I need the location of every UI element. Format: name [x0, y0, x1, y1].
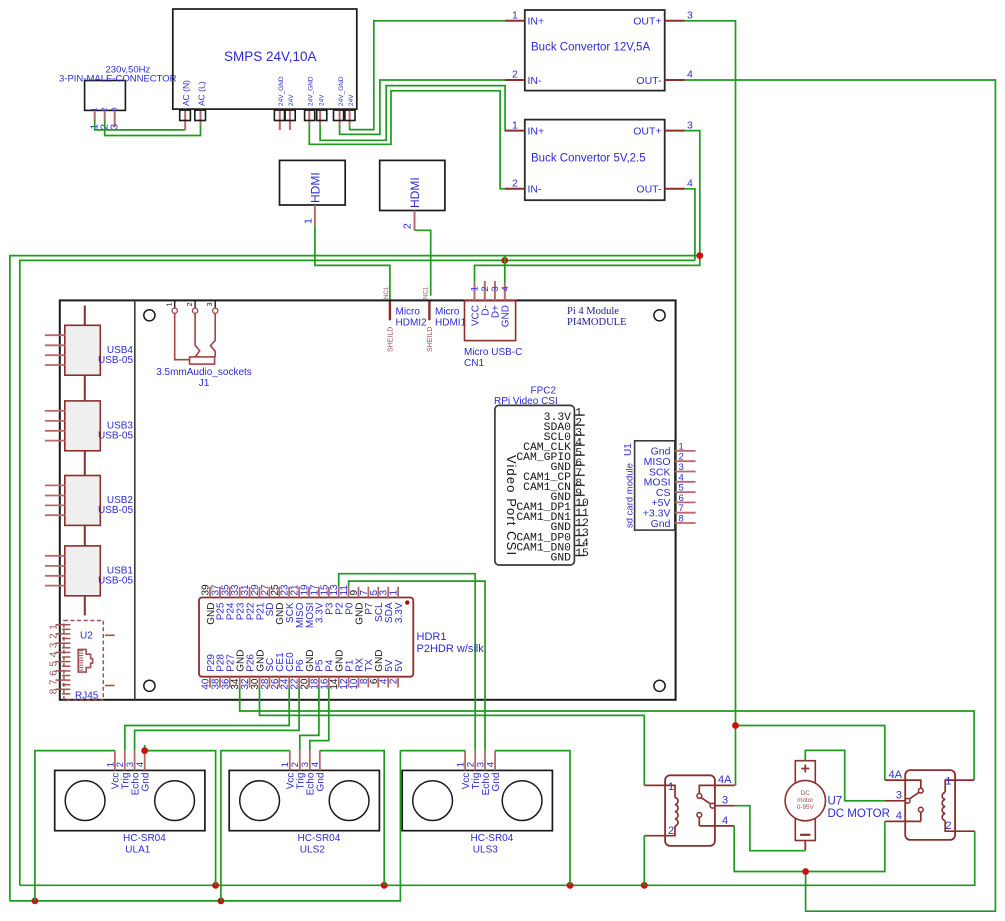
- sd card module pins 1-8: [643, 441, 696, 529]
- USB chain stub 3-2: [84, 451, 86, 476]
- pin1 marker dot: [405, 600, 409, 604]
- svg-text:4: 4: [722, 815, 728, 827]
- wire buck1 OUT- right edge loop: [685, 80, 996, 911]
- connector USB1 USB-05: [65, 546, 101, 596]
- wire pin2 to AC(L): [105, 121, 201, 136]
- HDMI connector 2 body: [380, 160, 445, 210]
- svg-text:Buck Convertor 5V,2.5: Buck Convertor 5V,2.5: [531, 153, 646, 165]
- svg-text:1: 1: [90, 107, 99, 111]
- svg-text:HDMI2: HDMI2: [396, 318, 428, 329]
- junction ULA1 Gnd: [141, 747, 148, 754]
- svg-text:2: 2: [668, 825, 674, 837]
- wire header pin22 to ULA1 Echo: [135, 688, 300, 751]
- svg-text:3: 3: [687, 10, 693, 22]
- pin 4 OUT-: [665, 79, 685, 81]
- pin 1 IN+: [505, 130, 525, 132]
- svg-text:SHEILD: SHEILD: [388, 327, 395, 352]
- connector FPC2 RPi Video CSI body: [495, 405, 575, 565]
- wire header pin13 P3 to ULS3 Trig: [339, 574, 476, 751]
- relay K2 lower throw: [918, 807, 923, 812]
- wire ULA1 Gnd stub: [144, 745, 146, 751]
- Pi 4 Module body: [60, 300, 676, 699]
- sensor ULS3 HC-SR04 body: [402, 770, 552, 830]
- USB chain stub 4-3: [84, 375, 86, 401]
- pin AC (L): [200, 109, 202, 125]
- svg-text:Gnd: Gnd: [651, 518, 671, 530]
- pin 4 OUT-: [665, 188, 685, 190]
- wire GND bus row + left drop to sensor Gnd rail: [20, 260, 695, 885]
- svg-text:1: 1: [389, 590, 400, 596]
- svg-text:4A: 4A: [718, 774, 732, 786]
- junction 5V row / buck2 OUT+: [696, 252, 703, 259]
- wire header pin34 to relay K2 coil 1: [240, 688, 974, 781]
- svg-text:3-PIN-MALE-CONNECTOR: 3-PIN-MALE-CONNECTOR: [59, 74, 177, 85]
- svg-text:USB-05: USB-05: [98, 576, 133, 587]
- svg-text:2: 2: [100, 107, 109, 111]
- svg-text:2: 2: [512, 69, 518, 81]
- junction Gnd rail ULS3: [567, 882, 574, 889]
- svg-text:HDR1: HDR1: [417, 631, 447, 643]
- wire 5V bus row + left drop to sensor Vcc rail: [10, 256, 700, 901]
- svg-text:SMPS 24V,10A: SMPS 24V,10A: [224, 49, 317, 64]
- svg-text:NC1: NC1: [384, 286, 390, 299]
- svg-text:1: 1: [165, 302, 174, 306]
- wire header pin11 P2 to ULS3 Echo: [349, 581, 485, 751]
- motor U7 DC MOTOR body: [795, 761, 815, 841]
- connector USB3 USB-05: [65, 401, 101, 451]
- svg-text:24V: 24V: [288, 94, 295, 106]
- junction Gnd rail relay L coil: [641, 882, 648, 889]
- module U1 sd card module body: [635, 441, 675, 530]
- wire 24V_GND b to buck2 IN-: [309, 91, 509, 189]
- wire motor - to relay K1 pin 3: [735, 806, 805, 851]
- svg-text:P2HDR w/silk: P2HDR w/silk: [417, 643, 485, 655]
- svg-text:Micro: Micro: [396, 307, 421, 318]
- relay K2 coil: [942, 792, 945, 820]
- connector CN1 Micro USB-C body: [465, 300, 516, 340]
- pin 2 IN-: [505, 188, 525, 190]
- svg-text:Buck Convertor 12V,5A: Buck Convertor 12V,5A: [531, 42, 650, 54]
- wire ULS2 Vcc rail: [221, 751, 290, 901]
- pin 1 VCC: [474, 283, 476, 301]
- pin 24V c: [349, 109, 351, 125]
- USB chain stub bottom: [84, 596, 86, 616]
- pin 1 of HDMI1: [314, 205, 316, 225]
- svg-text:RPi Video CSI: RPi Video CSI: [494, 396, 558, 407]
- svg-text:4: 4: [486, 762, 497, 767]
- junction 12V branch: [732, 722, 739, 729]
- svg-text:IN+: IN+: [528, 16, 545, 28]
- pin 2 IN-: [505, 79, 525, 81]
- svg-text:2: 2: [185, 302, 194, 306]
- pin 2 D-: [484, 281, 486, 301]
- svg-text:sd card module: sd card module: [625, 463, 636, 528]
- svg-text:IN-: IN-: [528, 184, 543, 196]
- USB chain stub top: [84, 306, 86, 326]
- wire motor + to relay K2 pin 3: [805, 750, 884, 800]
- svg-text:0-95V: 0-95V: [797, 804, 815, 811]
- stub right of RJ45 (1): [105, 634, 115, 636]
- svg-text:CN1: CN1: [464, 358, 484, 369]
- relay K1 coil: [675, 798, 678, 826]
- CSI pins 1-15: [574, 415, 584, 555]
- svg-text:3.5mmAudio_sockets: 3.5mmAudio_sockets: [156, 367, 252, 378]
- svg-text:2: 2: [389, 678, 400, 684]
- svg-text:IN+: IN+: [528, 125, 545, 137]
- svg-text:DC MOTOR: DC MOTOR: [828, 808, 890, 820]
- wire pin1 to AC(N): [95, 121, 186, 130]
- sensor ULS2 HC-SR04 body: [229, 770, 379, 830]
- wire sensor Vcc rail (bottom): [10, 750, 401, 901]
- relay K1 coil pin 2: [644, 826, 675, 836]
- svg-text:3: 3: [205, 302, 214, 306]
- svg-text:OUT-: OUT-: [636, 75, 662, 87]
- svg-text:3: 3: [896, 790, 902, 802]
- pin 24V b: [319, 109, 321, 125]
- svg-text:8: 8: [679, 514, 684, 525]
- svg-text:4: 4: [135, 762, 146, 767]
- sensor ULA1 HC-SR04 body: [55, 770, 205, 830]
- svg-text:4: 4: [896, 810, 902, 822]
- svg-text:RJ45: RJ45: [75, 691, 99, 702]
- wire sensor Gnd rail (bottom): [20, 831, 975, 885]
- RJ45 pins 1-8: [56, 625, 71, 694]
- SMPS 24V,10A body: [173, 9, 357, 109]
- svg-text:AC (L): AC (L): [196, 81, 206, 106]
- relay K1 body: [665, 775, 715, 846]
- connector J? 3-PIN-MALE-CONNECTOR body: [85, 81, 126, 111]
- mounting hole bottom-left: [144, 680, 155, 691]
- svg-text:4: 4: [310, 762, 321, 767]
- svg-text:U1: U1: [623, 443, 634, 456]
- pin 3 OUT+: [665, 130, 685, 132]
- connector USB4 USB-05: [65, 325, 101, 375]
- relay K2 body: [905, 770, 955, 840]
- svg-text:5V: 5V: [394, 659, 405, 672]
- svg-text:AC (N): AC (N): [181, 80, 191, 106]
- pin 1 of connector: [94, 110, 96, 121]
- connector J1 3.5mm audio sockets: [175, 300, 216, 308]
- svg-text:HC-SR04: HC-SR04: [471, 833, 514, 844]
- wire relay K1 pin 2 to Gnd rail: [643, 836, 645, 886]
- svg-text:ULS3: ULS3: [473, 845, 498, 856]
- relay K1 coil pin 1: [644, 785, 675, 797]
- svg-text:24V_GND: 24V_GND: [338, 76, 345, 106]
- svg-text:1: 1: [303, 218, 315, 224]
- junction GND row / USB-C GND: [501, 257, 508, 264]
- pin 2 of HDMI2: [414, 211, 416, 231]
- Pi module inner divider: [134, 300, 136, 699]
- svg-text:Gnd: Gnd: [141, 773, 152, 792]
- svg-text:GND: GND: [501, 305, 512, 327]
- stub right of RJ45 (2): [105, 685, 115, 687]
- relay K2 pin 3: [884, 800, 905, 802]
- wire header pin24 to ULA1 Trig: [125, 688, 289, 751]
- junction Gnd rail ULS2: [381, 882, 388, 889]
- svg-text:Gnd: Gnd: [316, 773, 327, 792]
- pin AC (N): [184, 109, 186, 130]
- relay K1 armature: [701, 798, 711, 805]
- junction Vcc rail ULS2: [218, 898, 225, 905]
- relay K2 armature: [909, 792, 919, 799]
- CSI pin labels: [516, 408, 589, 565]
- svg-text:7: 7: [49, 679, 60, 685]
- svg-text:GND: GND: [550, 552, 571, 564]
- svg-text:J1: J1: [199, 378, 210, 389]
- svg-text:1: 1: [668, 781, 674, 793]
- svg-text:HC-SR04: HC-SR04: [123, 833, 166, 844]
- junction Gnd rail ULA1: [212, 882, 219, 889]
- svg-text:1: 1: [49, 624, 60, 630]
- svg-text:3: 3: [110, 124, 121, 130]
- svg-text:4: 4: [49, 651, 60, 657]
- motor minus stub: [804, 841, 806, 851]
- svg-text:Micro: Micro: [435, 307, 460, 318]
- wire HDMI1 to Micro HDMI2: [315, 225, 390, 299]
- wire relay K1 pin 4 to relay K2 pin 4 rail: [734, 821, 885, 871]
- svg-text:PI4MODULE: PI4MODULE: [567, 317, 627, 328]
- relay K1 pin 3: [715, 805, 735, 807]
- svg-text:24V_GND: 24V_GND: [308, 76, 315, 106]
- mounting hole bottom-right: [654, 680, 665, 691]
- svg-text:3: 3: [722, 795, 728, 807]
- svg-text:3: 3: [110, 107, 119, 111]
- pin 24V_GND b: [308, 109, 310, 125]
- pin Micro HDMI1 (NC1/SHEILD): [428, 300, 430, 320]
- svg-text:DC: DC: [801, 790, 811, 797]
- svg-text:SHEILD: SHEILD: [427, 327, 434, 352]
- svg-text:ULS2: ULS2: [300, 845, 325, 856]
- relay K2 coil pin 1: [945, 780, 974, 792]
- junction Vcc rail ULA1: [32, 898, 39, 905]
- pin Micro HDMI2 (NC1/SHEILD): [389, 300, 391, 320]
- buck converter U? 5V,2.5 body: [525, 120, 665, 201]
- svg-text:2: 2: [49, 633, 60, 639]
- svg-text:OUT+: OUT+: [633, 125, 661, 137]
- svg-text:4: 4: [687, 69, 693, 81]
- wire header pin18 to ULS2 Trig: [300, 688, 319, 751]
- mounting hole top-left: [144, 310, 155, 321]
- svg-text:2: 2: [945, 820, 951, 832]
- pin 24V a (n/c): [289, 109, 291, 130]
- pin 1 IN+: [505, 20, 525, 22]
- wire buck2 OUT- down to GND row: [685, 189, 695, 261]
- wire USB-C GND to bus: [504, 255, 506, 283]
- svg-text:24V: 24V: [318, 94, 325, 106]
- svg-text:U7: U7: [828, 796, 843, 808]
- header HDR1 P2HDR w/silk body: [199, 598, 413, 677]
- svg-text:HC-SR04: HC-SR04: [298, 833, 341, 844]
- svg-text:3: 3: [687, 119, 693, 131]
- pin 4 GND: [504, 283, 506, 301]
- svg-text:ULA1: ULA1: [125, 845, 150, 856]
- USB chain stub 2-1: [84, 525, 86, 546]
- ULS2 pin stubs: [290, 751, 320, 771]
- svg-text:OUT-: OUT-: [636, 184, 662, 196]
- svg-text:2: 2: [512, 177, 518, 189]
- svg-text:USB-05: USB-05: [98, 431, 133, 442]
- svg-text:Gnd: Gnd: [491, 773, 502, 792]
- wire HDMI2 to Micro HDMI1: [415, 230, 431, 295]
- wire header pin30 to relay K1 coil 1: [260, 688, 645, 786]
- RJ45 jack icon: [78, 649, 92, 672]
- svg-text:IN-: IN-: [528, 75, 543, 87]
- wire relay K2 pin 4A to 12V drop: [736, 726, 885, 781]
- wire buck1 OUT+ 12V down to relays: [685, 21, 736, 786]
- svg-text:HDMI: HDMI: [408, 177, 422, 208]
- svg-text:2: 2: [402, 223, 414, 229]
- svg-text:Micro USB-C: Micro USB-C: [464, 347, 522, 358]
- wire ULA1 Vcc rail: [35, 751, 115, 901]
- svg-text:4: 4: [500, 286, 511, 291]
- module U2 RJ45 dashed body: [64, 621, 103, 701]
- wire ULS3 Gnd rail: [495, 751, 570, 886]
- wire header pin16 to ULS2 Echo: [310, 688, 329, 751]
- svg-text:motor: motor: [797, 797, 813, 804]
- svg-text:USB-05: USB-05: [98, 355, 133, 366]
- header pin stubs: [210, 587, 398, 688]
- svg-text:HDMI1: HDMI1: [435, 318, 467, 329]
- pin 3 D+: [494, 281, 496, 301]
- junction relay4 rail / buck1 OUT-: [802, 868, 809, 875]
- svg-text:U2: U2: [80, 631, 93, 642]
- svg-text:Pi 4 Module: Pi 4 Module: [567, 306, 619, 317]
- wire 24V_GND c to buck1 IN-: [340, 80, 505, 134]
- svg-text:3.3V: 3.3V: [394, 602, 405, 623]
- ULA1 pin stubs: [115, 751, 145, 771]
- svg-text:3: 3: [49, 642, 60, 648]
- svg-text:HDMI: HDMI: [309, 172, 323, 203]
- svg-text:24V_GND: 24V_GND: [278, 76, 285, 106]
- svg-text:OUT+: OUT+: [633, 16, 661, 28]
- relay K1 pin 4A: [699, 785, 735, 793]
- wire 24V b to buck2 IN+: [320, 86, 509, 141]
- svg-text:1: 1: [945, 776, 951, 788]
- svg-text:15: 15: [575, 548, 589, 560]
- pin 24V_GND c: [339, 109, 341, 125]
- relay K1 lower throw: [697, 813, 702, 818]
- wire ULS2 Gnd rail: [320, 751, 384, 886]
- svg-text:NC1: NC1: [424, 286, 430, 299]
- HDMI connector 1 body: [280, 160, 346, 205]
- wire 24V c to buck1 IN+: [350, 21, 505, 130]
- buck converter U? 12V,5A body: [525, 10, 665, 91]
- svg-text:6: 6: [49, 670, 60, 676]
- svg-text:4A: 4A: [889, 769, 903, 781]
- pin 3 of connector: [114, 110, 116, 127]
- wire ULA1 Gnd rail: [145, 751, 216, 886]
- ULS3 pin stubs: [465, 751, 495, 771]
- pin 24V_GND a (n/c): [279, 109, 281, 130]
- pin 3 OUT+: [665, 20, 685, 22]
- wire ULS3 Vcc rail: [400, 750, 465, 752]
- svg-text:1: 1: [512, 10, 518, 22]
- pin 2 of connector: [104, 110, 106, 121]
- svg-text:USB-05: USB-05: [98, 505, 133, 516]
- svg-text:4: 4: [687, 177, 693, 189]
- relay K2 pin 4A: [885, 780, 921, 788]
- connector USB2 USB-05: [65, 476, 101, 526]
- relay K2 coil pin 2: [945, 821, 975, 832]
- svg-text:5: 5: [49, 661, 60, 667]
- wire buck2 OUT+ 5V down: [475, 131, 700, 283]
- svg-text:8: 8: [49, 688, 60, 694]
- svg-text:1: 1: [512, 119, 518, 131]
- svg-text:24V: 24V: [348, 94, 355, 106]
- mounting hole top-right: [654, 310, 665, 321]
